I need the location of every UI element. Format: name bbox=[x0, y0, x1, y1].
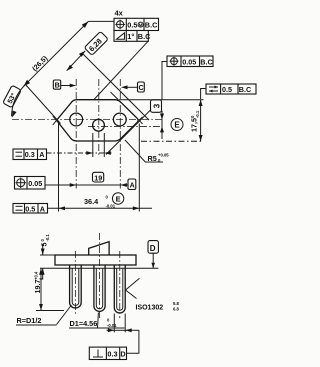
svg-text:0.5: 0.5 bbox=[222, 85, 232, 94]
svg-text:E: E bbox=[116, 195, 121, 204]
svg-text:E: E bbox=[174, 121, 180, 130]
svg-text:19: 19 bbox=[94, 173, 102, 182]
svg-text:0.3: 0.3 bbox=[107, 350, 117, 359]
svg-text:17,5: 17,5 bbox=[190, 118, 199, 132]
svg-text:36.4: 36.4 bbox=[84, 197, 99, 206]
svg-text:19.7: 19.7 bbox=[33, 280, 42, 294]
svg-text:0.3: 0.3 bbox=[25, 150, 35, 159]
svg-text:R=D1/2: R=D1/2 bbox=[17, 316, 42, 325]
svg-text:B.C: B.C bbox=[239, 85, 251, 94]
svg-text:3: 3 bbox=[152, 103, 161, 108]
svg-text:D: D bbox=[120, 350, 125, 359]
svg-text:-0.01: -0.01 bbox=[107, 323, 117, 328]
svg-text:-0.01: -0.01 bbox=[106, 204, 116, 209]
svg-text:0.05: 0.05 bbox=[28, 179, 42, 188]
svg-text:0.5: 0.5 bbox=[25, 204, 35, 213]
svg-text:5: 5 bbox=[40, 243, 49, 247]
svg-text:0.05: 0.05 bbox=[182, 57, 196, 66]
svg-text:-0.1: -0.1 bbox=[195, 110, 200, 118]
svg-text:B.C: B.C bbox=[145, 20, 158, 29]
svg-text:+0.05: +0.05 bbox=[158, 153, 169, 158]
svg-text:M: M bbox=[139, 22, 143, 27]
svg-text:-0.1: -0.1 bbox=[45, 234, 50, 242]
svg-text:1°: 1° bbox=[127, 32, 134, 41]
svg-text:5.8: 5.8 bbox=[173, 301, 179, 306]
svg-text:A: A bbox=[40, 204, 45, 213]
svg-text:B.C: B.C bbox=[200, 57, 212, 66]
svg-text:ISO1302: ISO1302 bbox=[136, 305, 164, 312]
svg-text:A: A bbox=[39, 150, 44, 159]
svg-text:D1=4.56: D1=4.56 bbox=[70, 319, 98, 328]
svg-text:4x: 4x bbox=[115, 9, 124, 18]
svg-text:C: C bbox=[139, 83, 144, 92]
svg-text:R5: R5 bbox=[148, 154, 157, 163]
svg-text:A: A bbox=[130, 183, 135, 190]
svg-text:B: B bbox=[55, 81, 60, 90]
svg-text:6.8: 6.8 bbox=[173, 307, 179, 312]
svg-text:0.5: 0.5 bbox=[127, 20, 137, 29]
svg-text:D: D bbox=[150, 244, 156, 253]
svg-text:B.C: B.C bbox=[138, 32, 151, 41]
